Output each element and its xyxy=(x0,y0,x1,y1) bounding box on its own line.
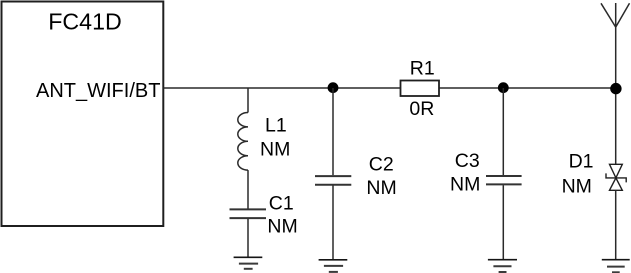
capacitor C3 xyxy=(486,176,522,184)
wire antenna mast down to node xyxy=(615,3,617,164)
wire C3 to ground xyxy=(502,185,504,260)
capacitor C1 xyxy=(230,209,267,218)
svg-text:D1: D1 xyxy=(569,151,594,173)
svg-text:NM: NM xyxy=(562,175,592,197)
svg-text:NM: NM xyxy=(366,177,396,199)
svg-text:NM: NM xyxy=(267,215,297,237)
svg-text:NM: NM xyxy=(260,138,290,160)
node junction dot at C2 tap xyxy=(328,82,339,93)
svg-text:L1: L1 xyxy=(265,115,287,137)
wire C2 to ground xyxy=(332,186,334,260)
ground below C2 xyxy=(319,260,348,272)
wire L1 to C1 xyxy=(247,170,249,209)
wire C2 branch top xyxy=(332,88,334,175)
svg-text:C1: C1 xyxy=(269,192,294,214)
component U1 FC41D module box xyxy=(2,2,164,227)
svg-text:R1: R1 xyxy=(410,58,435,80)
wire L1 branch top xyxy=(247,88,249,113)
wire from R1 to antenna node xyxy=(439,87,616,89)
inductor L1 xyxy=(238,113,248,171)
wire C1 to ground xyxy=(247,219,249,257)
resistor R1 xyxy=(401,81,440,97)
ground below C3 xyxy=(488,260,517,272)
node junction dot at antenna/D1 xyxy=(610,83,621,94)
wire main net from FC41D pin to R1 xyxy=(163,87,400,89)
svg-text:C3: C3 xyxy=(455,150,480,172)
svg-text:NM: NM xyxy=(450,173,480,195)
wire C3 branch top xyxy=(502,88,504,175)
ground below D1 xyxy=(602,260,630,273)
node junction dot at C3 tap xyxy=(498,82,509,93)
svg-text:ANT_WIFI/BT: ANT_WIFI/BT xyxy=(36,80,160,102)
svg-text:FC41D: FC41D xyxy=(48,9,121,35)
wire D1 to ground xyxy=(615,190,617,259)
diode D1 TVS xyxy=(606,164,626,190)
ground below C1 xyxy=(234,257,263,269)
svg-text:0R: 0R xyxy=(409,98,434,120)
svg-text:C2: C2 xyxy=(369,154,394,176)
capacitor C2 xyxy=(315,176,351,185)
antenna ANT xyxy=(601,3,630,27)
